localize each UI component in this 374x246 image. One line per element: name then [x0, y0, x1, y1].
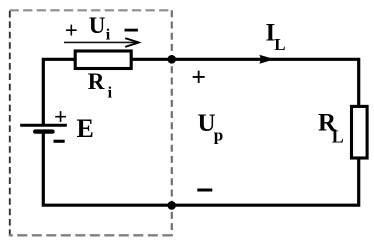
wire: battery top to top-left corner to resistor R_i [43, 59, 75, 124]
svg-text:U: U [89, 13, 106, 38]
svg-text:+: + [65, 18, 78, 43]
dashed box top edge [10, 9, 172, 11]
battery minus sign [54, 140, 65, 143]
wire: resistor R_i right through top node to top-right corner down to R_L [132, 59, 359, 106]
dashed box right edge [171, 10, 173, 236]
svg-text:+: + [191, 62, 206, 91]
resistor R_i [75, 51, 131, 69]
svg-text:i: i [106, 27, 111, 44]
svg-text:+: + [54, 104, 67, 129]
label + U_i - [65, 13, 138, 44]
svg-text:L: L [274, 35, 285, 54]
dashed box left edge [9, 10, 11, 237]
resistor R_L [352, 106, 368, 158]
label R_i [88, 69, 113, 102]
dashed box bottom edge [9, 234, 172, 236]
wire: battery bottom to bottom-left corner, bottom rail, up to R_L bottom [43, 133, 358, 205]
battery short plate (-) [35, 129, 52, 133]
svg-text:R: R [88, 69, 105, 94]
svg-text:L: L [332, 126, 344, 146]
battery long plate (+) [20, 124, 67, 127]
current arrow I_L [259, 55, 274, 64]
battery E [20, 104, 94, 143]
label I_L [266, 20, 286, 55]
node bottom (output terminal) [167, 201, 176, 210]
svg-text:i: i [108, 85, 113, 102]
label U_p with + and - [191, 62, 223, 191]
node top (output terminal) [167, 55, 176, 64]
label R_L [318, 110, 344, 147]
svg-text:E: E [77, 114, 94, 143]
svg-text:p: p [214, 126, 223, 145]
voltage arrow U_i [64, 38, 139, 47]
